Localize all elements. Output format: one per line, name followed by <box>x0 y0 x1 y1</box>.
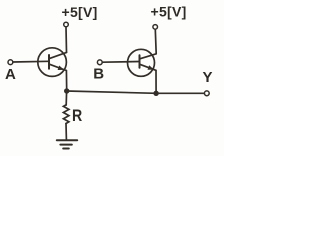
svg-text:+5[V]: +5[V] <box>151 4 187 20</box>
+5V terminal 1 <box>64 22 69 27</box>
input terminal B <box>97 60 102 65</box>
ground <box>57 140 77 148</box>
svg-text:A: A <box>5 66 16 83</box>
transistor Q2 <box>128 49 157 76</box>
junction node emitters <box>64 88 69 93</box>
wire junction to resistor <box>65 91 67 105</box>
junction node output <box>153 91 158 96</box>
input terminal A <box>8 60 13 65</box>
output terminal Y <box>204 91 209 96</box>
wire B to base Q2 <box>102 61 139 64</box>
wire emitter Q2 down <box>155 70 157 93</box>
svg-text:R: R <box>72 106 82 125</box>
svg-text:Y: Y <box>203 69 213 86</box>
wire +5V2 to collector Q2 <box>154 29 157 53</box>
svg-text:+5[V]: +5[V] <box>62 4 98 20</box>
resistor R <box>63 105 69 124</box>
wire resistor to ground <box>65 124 67 140</box>
wire emitter Q1 down <box>65 71 67 92</box>
wire output rail <box>67 91 205 93</box>
+5V terminal 2 <box>153 25 158 30</box>
svg-text:B: B <box>93 66 104 83</box>
transistor Q1 <box>38 48 67 77</box>
wire +5V1 to collector Q1 <box>65 27 68 52</box>
wire A to base Q1 <box>13 60 49 63</box>
